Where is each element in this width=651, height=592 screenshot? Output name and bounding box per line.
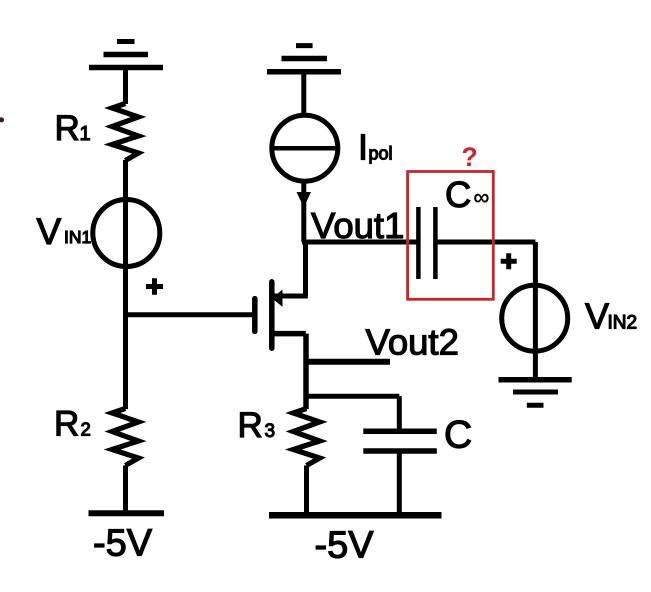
svg-text:R: R <box>238 406 263 445</box>
svg-text:IN1: IN1 <box>64 227 91 247</box>
svg-text:Vout2: Vout2 <box>366 322 459 363</box>
svg-text:C: C <box>444 414 472 457</box>
svg-text:1: 1 <box>80 123 91 145</box>
svg-text:pol: pol <box>369 144 393 164</box>
svg-text:V: V <box>585 296 609 337</box>
svg-text:V: V <box>37 211 62 252</box>
svg-text:?: ? <box>462 142 478 172</box>
svg-text:Vout1: Vout1 <box>311 205 404 246</box>
svg-text:-5V: -5V <box>315 525 375 567</box>
svg-text:R: R <box>54 405 79 444</box>
svg-text:R: R <box>55 109 80 148</box>
svg-text:I: I <box>358 127 368 168</box>
svg-text:3: 3 <box>265 421 276 442</box>
svg-text:C: C <box>445 174 471 215</box>
svg-text:∞: ∞ <box>474 185 490 210</box>
svg-text:IN2: IN2 <box>608 313 638 334</box>
svg-text:2: 2 <box>81 419 91 440</box>
svg-text:-5V: -5V <box>93 523 153 565</box>
